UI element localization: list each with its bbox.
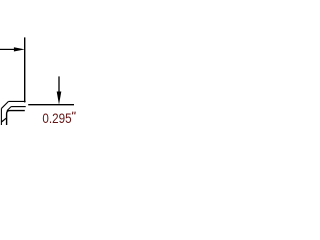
arrowhead (down-pointing) (57, 92, 62, 105)
extension line (vertical, left) (24, 37, 26, 102)
dimensioned edge line (horizontal) (28, 104, 74, 106)
part outer miter diagonal (1, 101, 8, 108)
dimension line (horizontal arrow pointing right) (0, 48, 16, 50)
svg-text:0.295: 0.295 (42, 110, 71, 125)
background (0, 0, 87, 125)
part inner top edge (11, 106, 26, 108)
part inner miter diagonal (7, 107, 11, 111)
part outer left edge (0, 108, 2, 125)
dimension line (vertical arrow pointing down) (58, 76, 60, 95)
inch mark (double prime ticks) (71, 112, 74, 115)
corner key (rounded inner corner profile) (7, 111, 25, 125)
arrowhead (right-pointing) (14, 47, 25, 51)
hatch line (2, 118, 7, 122)
part outer top edge (9, 100, 26, 102)
